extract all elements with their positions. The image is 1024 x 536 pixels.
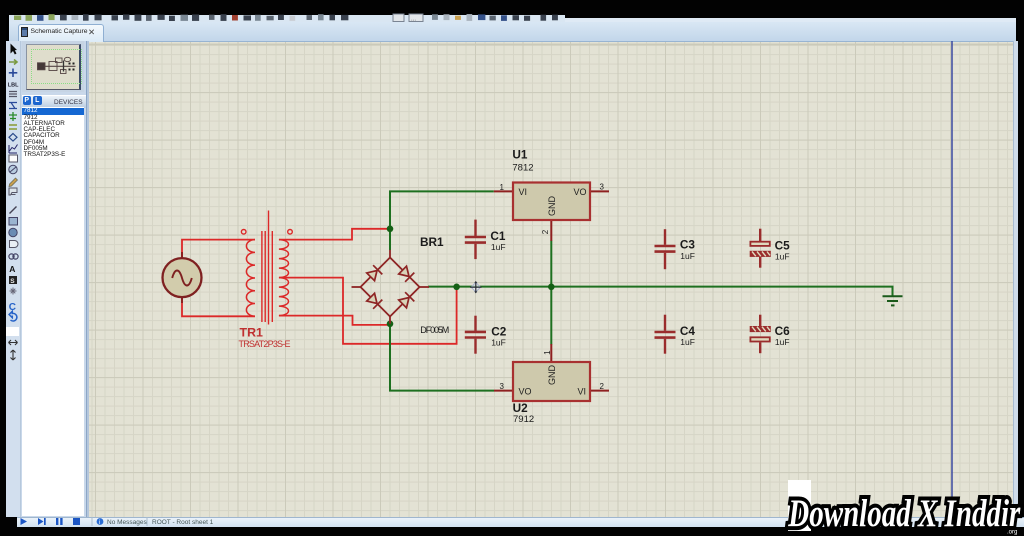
wire: green from bridge + up to U1 VI bbox=[390, 191, 494, 250]
top black title bar bbox=[0, 0, 1024, 15]
wire: green from bridge - down and to U2 VO bbox=[390, 323, 494, 391]
junction: centre tap on 0V rail bbox=[453, 284, 460, 291]
devices list bbox=[22, 107, 84, 516]
capacitor C1 bbox=[465, 220, 486, 260]
diode D-LL of BR1 (left vertex to bottom vertex) bbox=[367, 293, 383, 309]
svg-text:1: 1 bbox=[500, 183, 505, 192]
minimap bbox=[22, 41, 84, 92]
secondary winding (centre tapped) bbox=[279, 240, 289, 316]
transformer TR1 bbox=[241, 211, 292, 325]
bottom black bar bbox=[0, 527, 1024, 536]
DEVICES header bbox=[22, 95, 86, 108]
regulator U1 (7812) bbox=[494, 183, 609, 241]
svg-text:1uF: 1uF bbox=[680, 251, 695, 261]
svg-text:7812: 7812 bbox=[512, 162, 533, 173]
svg-text:VI: VI bbox=[519, 187, 528, 197]
junction: U1/U2 GND on 0V rail bbox=[548, 284, 555, 291]
ground symbol bbox=[883, 296, 903, 305]
svg-text:U1: U1 bbox=[512, 148, 528, 162]
svg-text:VI: VI bbox=[578, 387, 587, 397]
wire: secondary centre tap to 0V rail bbox=[279, 278, 457, 344]
phase dot primary bbox=[241, 230, 246, 235]
svg-text:3: 3 bbox=[500, 382, 505, 391]
svg-text:C4: C4 bbox=[680, 324, 696, 338]
capacitor C2 bbox=[465, 316, 486, 354]
svg-text:1uF: 1uF bbox=[680, 337, 695, 347]
svg-text:1uF: 1uF bbox=[775, 252, 790, 262]
active tab bbox=[18, 24, 104, 43]
toolbar strip bbox=[9, 15, 565, 22]
primary winding bbox=[246, 240, 255, 317]
svg-text:3: 3 bbox=[600, 183, 605, 192]
svg-text:1uF: 1uF bbox=[491, 337, 506, 347]
status bar bbox=[16, 517, 1024, 528]
svg-text:C2: C2 bbox=[491, 325, 507, 339]
diode D-UL of BR1 (left vertex to top vertex) bbox=[367, 265, 383, 281]
left black column bbox=[0, 14, 6, 528]
wire: primary top (AC source to TR1) bbox=[182, 240, 255, 258]
junction: secondary top / bridge + bbox=[387, 226, 394, 233]
wire: primary bottom (AC source to TR1) bbox=[182, 297, 255, 316]
svg-text:1: 1 bbox=[543, 350, 552, 355]
svg-text:2: 2 bbox=[600, 382, 605, 391]
core lines bbox=[262, 211, 272, 325]
svg-text:VO: VO bbox=[519, 387, 532, 397]
wire: green U2 GND up to 0V rail bbox=[550, 287, 552, 345]
svg-text:1uF: 1uF bbox=[775, 337, 790, 347]
svg-text:GND: GND bbox=[547, 196, 557, 217]
wire: green U1 GND down to 0V rail bbox=[550, 241, 552, 288]
svg-text:U2: U2 bbox=[513, 401, 529, 415]
bridge rectifier BR1 bbox=[352, 250, 430, 324]
svg-text:.org: .org bbox=[1007, 530, 1017, 536]
svg-text:C3: C3 bbox=[680, 238, 696, 252]
wire: secondary bottom (TR1 to bridge - node) bbox=[279, 316, 388, 325]
tab bar bbox=[9, 22, 1016, 42]
svg-text:C5: C5 bbox=[775, 238, 791, 252]
svg-text:BR1: BR1 bbox=[420, 235, 444, 249]
minimap sketch bbox=[38, 57, 76, 73]
svg-text:7912: 7912 bbox=[513, 414, 534, 425]
svg-text:TR1: TR1 bbox=[240, 326, 264, 340]
svg-text:2: 2 bbox=[541, 229, 550, 234]
wire: 0V rail to ground bbox=[428, 287, 893, 296]
capacitor C5 (electrolytic) bbox=[750, 229, 771, 268]
sidebar panel bbox=[21, 41, 86, 517]
capacitor C6 (electrolytic) bbox=[750, 315, 771, 354]
svg-text:C6: C6 bbox=[775, 324, 791, 338]
origin marker bbox=[470, 281, 481, 293]
window right black edge bbox=[1018, 0, 1024, 536]
svg-text:i: i bbox=[99, 520, 100, 526]
pin stubs bbox=[389, 250, 391, 258]
svg-text:TRSAT2P3S-E: TRSAT2P3S-E bbox=[239, 339, 291, 349]
watermark text bbox=[780, 482, 1024, 536]
diode D-UR of BR1 (top vertex to right vertex) bbox=[399, 266, 415, 282]
svg-text:ROOT - Root sheet 1: ROOT - Root sheet 1 bbox=[152, 519, 214, 526]
svg-text:GND: GND bbox=[547, 365, 557, 386]
diode D-LR of BR1 (bottom vertex to right vertex) bbox=[399, 292, 415, 308]
watermark white block bbox=[788, 480, 811, 531]
svg-text:VO: VO bbox=[574, 187, 587, 197]
svg-text:DF005M: DF005M bbox=[420, 325, 449, 335]
left vertical toolbar bbox=[6, 41, 21, 517]
sheet border line bbox=[951, 41, 953, 517]
capacitor C3 bbox=[655, 229, 676, 269]
regulator U2 (7912) bbox=[494, 344, 609, 401]
svg-text:1uF: 1uF bbox=[491, 242, 506, 252]
splitter bbox=[86, 41, 90, 517]
svg-text:Download X Inddir: Download X Inddir bbox=[788, 492, 1021, 535]
svg-text:C1: C1 bbox=[490, 229, 506, 243]
wire: secondary top (TR1 to bridge + node) bbox=[279, 229, 388, 240]
svg-text:No Messages: No Messages bbox=[107, 519, 147, 526]
capacitor C4 bbox=[655, 315, 676, 354]
right scrollbar bbox=[1013, 41, 1020, 517]
phase dot secondary bbox=[288, 230, 293, 235]
alternator V1 (AC source) bbox=[163, 252, 202, 303]
junction: secondary bottom / bridge - bbox=[387, 321, 394, 328]
